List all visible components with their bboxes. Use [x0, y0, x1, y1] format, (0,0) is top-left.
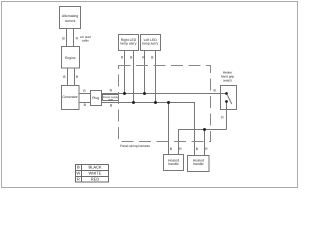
svg-text:handle: handle	[168, 162, 178, 166]
svg-text:wire: wire	[108, 98, 113, 101]
node: switch wire / handle 2 junction	[203, 128, 206, 131]
switch lever	[227, 95, 232, 104]
node: R wire / right LED junction	[123, 92, 126, 95]
wire B: left LED lamp	[155, 51, 157, 103]
node: B wire / handle 1 junction	[167, 101, 170, 104]
wire B: plug to heated handle 2	[102, 103, 195, 156]
svg-text:current: current	[65, 19, 76, 23]
node: B wire / right LED junction	[132, 101, 135, 104]
switch top contact	[225, 92, 228, 95]
heated handle 2 box	[188, 156, 210, 172]
wire: switch output down	[226, 102, 228, 130]
engine box	[62, 47, 80, 69]
svg-text:Alternating: Alternating	[62, 14, 78, 18]
wire R: right LED lamp	[124, 51, 126, 94]
svg-text:Panel wiring harness: Panel wiring harness	[120, 144, 150, 148]
wire B: engine to generator	[67, 68, 69, 86]
svg-text:lamp ass'y: lamp ass'y	[121, 42, 137, 46]
border frame (decorative)	[2, 2, 298, 188]
svg-text:Generator: Generator	[62, 95, 78, 99]
switch bottom contact	[225, 100, 228, 103]
svg-text:WHITE: WHITE	[89, 171, 102, 176]
svg-text:Engine: Engine	[65, 56, 76, 60]
left LED lamp assy box	[141, 35, 161, 51]
AC source box "Alternating current"	[60, 7, 81, 29]
svg-text:RED: RED	[91, 177, 100, 182]
svg-text:Plug: Plug	[92, 96, 99, 100]
wire B: AC source to engine	[66, 29, 68, 47]
plug box	[91, 91, 102, 106]
svg-text:lamp ass'y: lamp ass'y	[142, 42, 158, 46]
wire R: plug to switch top contact	[102, 93, 227, 95]
wire: switch output across to heated handle 1	[179, 130, 227, 155]
wire R: engine to generator	[74, 68, 76, 86]
wire R: generator to plug	[79, 93, 91, 95]
wire B: right LED lamp	[133, 51, 135, 103]
svg-text:W: W	[76, 171, 80, 176]
legend table	[76, 165, 109, 183]
svg-text:BLACK: BLACK	[88, 165, 101, 170]
svg-text:B: B	[77, 165, 80, 170]
svg-text:cable: cable	[82, 39, 90, 43]
right LED lamp assy box	[119, 35, 139, 51]
node: R wire / left LED junction	[143, 92, 146, 95]
wire R: left LED lamp	[144, 51, 146, 94]
heated hand grip switch box	[221, 86, 237, 110]
power supply wire label box	[103, 95, 119, 101]
generator box	[62, 86, 80, 110]
svg-text:switch: switch	[223, 78, 232, 82]
panel wiring harness dashed box	[119, 66, 211, 142]
svg-text:handle: handle	[193, 162, 203, 166]
svg-text:R: R	[77, 177, 80, 182]
node: B wire / left LED junction	[154, 101, 157, 104]
wire B: generator to plug	[79, 102, 91, 104]
label: Power supply wire	[103, 96, 119, 102]
wire B: node to heated handle 1	[168, 103, 170, 155]
wire R: AC source to engine	[73, 29, 75, 47]
wire R: node to heated handle 2	[204, 130, 206, 156]
heated handle 1 box	[164, 155, 184, 171]
